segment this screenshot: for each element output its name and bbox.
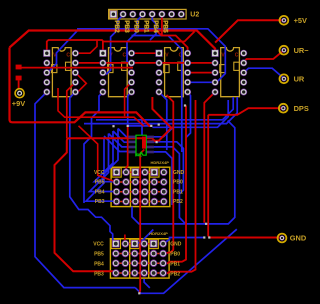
wire blue fan descend 4	[86, 139, 113, 201]
svg-text:GND: GND	[170, 242, 182, 248]
svg-text:PB5: PB5	[95, 180, 105, 186]
JP1 right labels	[173, 170, 185, 205]
wire blue fan left of green part 4	[104, 136, 136, 152]
wire red descender IC4	[204, 92, 215, 223]
wire header stub 3	[150, 15, 156, 40]
via 0	[112, 125, 114, 127]
svg-text:PB2: PB2	[173, 199, 183, 205]
wire blue fan descend 3	[90, 134, 114, 192]
header pin labels	[113, 20, 169, 33]
via 1b	[158, 124, 160, 126]
svg-text:PB4: PB4	[95, 189, 105, 195]
wire blue bundle y127	[152, 100, 228, 127]
wire blue diagonal through IC1	[49, 31, 78, 72]
IC2 pads	[99, 50, 135, 96]
wire blue mid vertical	[84, 92, 103, 203]
via 4	[184, 104, 186, 106]
wire blue y224	[132, 121, 235, 224]
transistor Q1 pads	[128, 136, 154, 154]
pad UR-	[280, 46, 289, 55]
wire blue bundle y124	[84, 97, 237, 124]
svg-text:PB5: PB5	[94, 251, 104, 257]
wire blue fan left of green part 2	[113, 131, 136, 142]
SMD pad D1	[16, 65, 22, 70]
wire red IC2 right down	[125, 82, 132, 116]
wire red header pad6 down	[157, 14, 188, 53]
wire blue IC3 left descender	[159, 92, 167, 150]
wire blue right of green part 2	[146, 142, 185, 224]
svg-text:VCC: VCC	[94, 170, 105, 176]
svg-text:PB5: PB5	[162, 20, 169, 33]
wire blue block2 top stub	[135, 230, 154, 244]
wire blue UR feed	[244, 68, 284, 78]
svg-text:+9V: +9V	[12, 99, 25, 108]
svg-text:PB0: PB0	[170, 251, 180, 257]
svg-text:IR1: IR1	[135, 153, 143, 158]
wire red smd link	[18, 80, 20, 88]
wire red descender 4 / DPS down	[208, 115, 209, 238]
wire red bus y63	[75, 62, 215, 64]
wire blue right of green part 3	[146, 147, 179, 194]
IC3 DIP body	[164, 48, 184, 97]
JP2 right labels	[170, 242, 182, 278]
JP1 left labels	[94, 170, 105, 205]
wire blue bundle y120	[96, 97, 233, 120]
IC4 DIP body	[220, 48, 240, 97]
wire red GND feed	[209, 237, 282, 239]
svg-text:+5V: +5V	[294, 16, 307, 25]
wire red thin y116	[58, 88, 144, 126]
wire red IC1 pin10 jog	[75, 41, 97, 54]
wire blue long diagonal bottom	[135, 229, 237, 293]
wire red left rail down	[10, 48, 152, 126]
wire blue IC2 to via	[128, 92, 132, 125]
IC2 DIP body	[108, 48, 128, 97]
header U2 silk outline	[109, 9, 187, 19]
wire red descender 1	[164, 95, 173, 254]
svg-text:PB4: PB4	[94, 261, 104, 267]
svg-text:PB3: PB3	[94, 271, 104, 277]
pad +5V	[280, 16, 289, 25]
svg-text:PB0: PB0	[173, 180, 183, 186]
svg-text:PB4: PB4	[152, 20, 159, 33]
svg-text:DPS: DPS	[294, 104, 309, 113]
svg-text:PB1: PB1	[173, 189, 183, 195]
header U2 pads	[110, 11, 185, 18]
IC1 pads	[43, 50, 79, 96]
wire red DPS feed	[208, 108, 283, 115]
connector JP1 silk	[111, 167, 170, 206]
wire blue fan descend 1	[104, 129, 118, 178]
wire red link IC2-IC3 row1	[132, 52, 160, 54]
wire red block2 col2 stub	[124, 235, 126, 244]
svg-text:PB0: PB0	[133, 20, 140, 33]
via 1	[127, 125, 129, 127]
IC3 pads	[155, 50, 191, 96]
wire red vertical through blocks	[139, 150, 144, 294]
wire red UR- feed	[245, 50, 284, 63]
pad GND	[278, 234, 287, 243]
via 5	[205, 223, 207, 225]
svg-text:PB3: PB3	[95, 199, 105, 205]
wire red board rail top-left	[10, 31, 216, 54]
connector JP2 silk	[110, 239, 169, 278]
wire blue climb to IC3 right	[186, 92, 191, 138]
wire header stub 2	[127, 15, 143, 66]
wire blue fan descend 2	[94, 131, 113, 182]
wire blue block2 col4 stub	[144, 279, 150, 288]
wire header stub 1	[106, 15, 123, 74]
wire blue GND row	[163, 238, 204, 244]
wire blue right of green part 4	[146, 152, 172, 205]
wire red descender 2	[167, 106, 186, 264]
via 3	[156, 141, 158, 143]
IC4 pads	[212, 50, 248, 96]
JP2 pads	[116, 244, 163, 273]
wire red stub via156	[152, 138, 157, 142]
wire red SMD D1 bus	[21, 67, 133, 69]
wire red IC1 down	[67, 82, 76, 138]
svg-text:PB2: PB2	[113, 20, 120, 33]
svg-text:VCC: VCC	[93, 242, 104, 248]
pad UR	[280, 74, 289, 83]
svg-text:UR: UR	[294, 74, 305, 83]
wire blue through IC3	[132, 36, 182, 153]
via 8	[138, 292, 140, 294]
transistor Q1 green outline	[136, 135, 146, 155]
SMD pad D2	[16, 76, 22, 81]
wire blue right of green part 1	[146, 128, 172, 137]
pad DPS	[279, 104, 288, 113]
wire blue fan left of green part 3	[109, 134, 136, 147]
wire red +5V feed	[215, 20, 284, 42]
svg-text:GND: GND	[290, 234, 307, 243]
via 2	[150, 125, 152, 127]
svg-text:PB2: PB2	[170, 271, 180, 277]
svg-text:UR−: UR−	[294, 46, 310, 55]
wire red descender 3	[167, 100, 196, 274]
svg-text:PB3: PB3	[123, 20, 130, 33]
wire red diag to block1	[79, 126, 117, 182]
wire red link IC3-IC4 row3	[188, 72, 216, 74]
svg-text:HDR2X4P: HDR2X4P	[149, 231, 168, 236]
via 6	[203, 236, 205, 238]
svg-text:GND: GND	[173, 170, 185, 176]
wire red IC3 to green part	[146, 97, 171, 142]
JP2 left labels	[93, 242, 104, 278]
svg-text:PB1: PB1	[170, 261, 180, 267]
JP1 pads	[117, 172, 164, 201]
wire blue into green pad	[141, 120, 143, 136]
wire blue top rail	[77, 29, 225, 83]
wire red pin1 bus	[47, 32, 195, 54]
wire blue via link	[128, 125, 152, 127]
wire red IC1 z-link	[75, 73, 86, 92]
wire blue left rail 2	[70, 92, 116, 243]
wire red left big rail 2	[55, 138, 153, 273]
via 7	[208, 236, 210, 238]
svg-text:HDR2X4P: HDR2X4P	[151, 160, 170, 165]
wire red via column down	[126, 126, 128, 172]
svg-text:PB1: PB1	[142, 20, 149, 33]
svg-text:U2: U2	[190, 12, 199, 19]
IC1 DIP body	[52, 48, 72, 97]
+9V ring pad	[15, 89, 24, 98]
wire blue fan left of green part 1	[118, 129, 136, 138]
wire blue left rail 1	[35, 92, 135, 288]
